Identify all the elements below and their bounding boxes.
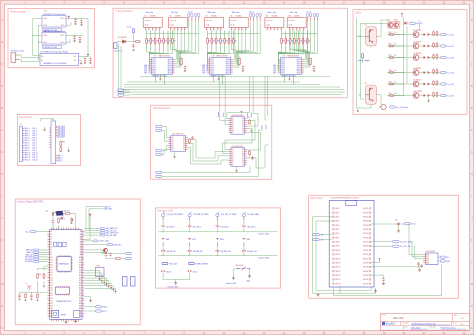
svg-text:GPIO31: GPIO31 <box>363 258 368 260</box>
svg-text:D22: D22 <box>50 288 53 290</box>
svg-text:SEG_5: SEG_5 <box>273 69 278 71</box>
capacitor C6 on 5v rail <box>89 58 92 62</box>
IC U9 MAX7219 display driver <box>144 55 174 78</box>
svg-text:Latch: Latch <box>246 113 249 117</box>
wire horizontal feeds display row <box>147 33 199 35</box>
wire row 3 <box>395 57 413 59</box>
svg-text:Q0: Q0 <box>172 137 174 139</box>
ports mid right <box>126 252 132 254</box>
LED driver row 1 resistor R20 <box>388 34 395 36</box>
chip notch <box>346 200 357 205</box>
LED driver row 5 indicator LEDs <box>424 83 427 86</box>
svg-text:LED_SW_3: LED_SW_3 <box>247 227 255 229</box>
svg-text:Q6: Q6 <box>232 130 234 132</box>
wire resistors to IC1 <box>147 51 173 72</box>
svg-text:Q3: Q3 <box>232 124 234 126</box>
resistor R44 left <box>37 273 39 279</box>
svg-text:220: 220 <box>173 41 176 43</box>
svg-text:DIG4: DIG4 <box>152 67 156 69</box>
svg-text:D26: D26 <box>50 298 53 300</box>
svg-text:Q6 2N2222: Q6 2N2222 <box>413 41 421 43</box>
svg-text:Switch1_GND: Switch1_GND <box>259 233 270 236</box>
svg-text:LED_SW_1: LED_SW_1 <box>193 227 201 229</box>
LED driver row 4 resistor R23 <box>388 72 395 74</box>
svg-text:D2: D2 <box>50 236 52 238</box>
svg-text:GPIO17: GPIO17 <box>335 279 340 281</box>
ports right middle <box>393 240 400 242</box>
wires top feeds to U14 <box>220 109 229 121</box>
svg-text:SEG_7: SEG_7 <box>202 73 207 75</box>
LED driver row 6 indicator LEDs <box>424 94 427 97</box>
svg-text:SEG1: SEG1 <box>297 61 301 63</box>
svg-text:Q5: Q5 <box>232 160 234 162</box>
switch body row1 cell1 <box>162 217 164 220</box>
svg-text:SW_ROW3: SW_ROW3 <box>25 261 33 263</box>
display U10 5011AS 7-segment <box>287 12 306 31</box>
svg-text:G: G <box>1 151 3 154</box>
svg-text:GPIO27: GPIO27 <box>363 242 368 244</box>
svg-text:GPIO25: GPIO25 <box>363 233 368 235</box>
wire Q1 feeds <box>361 22 388 24</box>
ground row3 <box>174 281 177 284</box>
svg-text:GPIO26: GPIO26 <box>363 237 368 239</box>
wire transistor collectors bus <box>419 20 421 30</box>
svg-text:220: 220 <box>152 41 155 43</box>
svg-text:C: C <box>2 63 4 66</box>
connector input 2pin <box>114 43 117 49</box>
wire IC right bundles to displays <box>171 30 185 67</box>
svg-text:1k: 1k <box>395 55 397 57</box>
svg-text:C30: C30 <box>395 220 398 222</box>
svg-text:R20: R20 <box>389 32 392 34</box>
fuse F1 <box>134 41 140 43</box>
ground under U10 <box>218 74 220 77</box>
section box LED boost drivers <box>353 10 467 115</box>
power flag reg1 <box>68 16 70 18</box>
svg-text:GPIO5: GPIO5 <box>335 229 339 231</box>
svg-text:GPIO28: GPIO28 <box>363 246 368 248</box>
wire descenders to shift register box <box>220 76 267 109</box>
wire power flag to module <box>84 217 90 239</box>
wire row 6 <box>395 95 413 97</box>
svg-text:M: M <box>471 283 473 286</box>
ground right of module <box>84 297 90 300</box>
encoder ground wires <box>234 269 240 277</box>
svg-text:SW8: SW8 <box>220 239 224 241</box>
svg-text:D5: D5 <box>183 147 185 149</box>
svg-text:Vcc_LR1: Vcc_LR1 <box>447 34 454 36</box>
svg-text:SEG_6: SEG_6 <box>273 71 278 73</box>
LED driver row 3 indicator LEDs <box>424 56 427 59</box>
wire row 2 <box>395 45 413 47</box>
port Vcc_5V_blank bottom <box>390 106 396 108</box>
svg-text:GPIO29: GPIO29 <box>363 250 368 252</box>
wires above module <box>52 215 54 219</box>
svg-text:DIG4: DIG4 <box>210 67 214 69</box>
svg-text:D25: D25 <box>50 295 53 297</box>
svg-text:a b c d e: a b c d e <box>230 20 236 22</box>
wire reg2 output <box>66 35 83 37</box>
wire row1 cell1 <box>162 220 164 232</box>
svg-text:DIG_1: DIG_1 <box>32 130 37 132</box>
svg-text:DIG_5: DIG_5 <box>32 140 37 142</box>
capacitor bottom-left C22 <box>30 294 33 298</box>
svg-text:GPIO32: GPIO32 <box>363 262 368 264</box>
svg-text:TOG_HR_UP 10HOUR: TOG_HR_UP 10HOUR <box>166 214 183 216</box>
ground under U9 <box>160 74 162 77</box>
LED driver row 1 resistor vertical <box>433 31 435 37</box>
LED driver row 1 indicator LEDs <box>424 33 427 36</box>
LED driver row 2 resistor vertical <box>433 42 435 48</box>
resistor network cluster 2 (segment resistors) <box>207 37 237 44</box>
svg-text:32K: 32K <box>446 257 449 259</box>
svg-text:MAX7219CNG: MAX7219CNG <box>159 55 171 58</box>
wire bottom row feeds <box>370 104 372 108</box>
svg-text:R40 1k: R40 1k <box>60 219 65 221</box>
svg-text:Sw_In: Sw_In <box>25 231 30 233</box>
svg-text:10Min_Disp: 10Min_Disp <box>207 12 216 14</box>
svg-text:D3: D3 <box>242 124 244 126</box>
svg-text:D23: D23 <box>50 290 53 292</box>
display U6 5011AS 7-segment <box>168 12 187 31</box>
svg-text:SEG4: SEG4 <box>168 67 172 69</box>
svg-text:220: 220 <box>169 41 172 43</box>
capacitor right of U9 <box>184 66 187 70</box>
wire ground bus row2 <box>159 255 278 257</box>
svg-text:Q6: Q6 <box>232 162 234 164</box>
svg-text:220: 220 <box>217 41 220 43</box>
wires resistors to display pair 2 <box>208 30 234 50</box>
svg-text:DIG_3: DIG_3 <box>32 135 37 137</box>
ground below module 2 <box>75 318 77 321</box>
svg-text:R25: R25 <box>389 93 392 95</box>
svg-text:D3: D3 <box>242 156 244 158</box>
switch body row2 cell1 <box>162 243 164 246</box>
svg-text:GPIO16: GPIO16 <box>335 275 340 277</box>
svg-text:GPIO11: GPIO11 <box>335 254 340 256</box>
svg-text:N: N <box>471 305 473 308</box>
label LM2596 5V 3A <box>43 28 62 31</box>
svg-text:U9: U9 <box>266 15 268 17</box>
svg-text:SEG_0: SEG_0 <box>25 128 30 130</box>
svg-text:220: 220 <box>226 41 229 43</box>
ports left of chip <box>312 234 319 236</box>
svg-text:SEG7: SEG7 <box>226 73 230 75</box>
svg-text:IN+: IN+ <box>41 56 44 58</box>
label LM2596 5V 3A second <box>43 45 62 48</box>
svg-text:DIG4: DIG4 <box>281 67 285 69</box>
wires U13 outputs to U15 <box>188 139 229 158</box>
svg-text:SEG4: SEG4 <box>297 67 301 69</box>
svg-text:C: C <box>471 63 473 66</box>
svg-text:5: 5 <box>221 29 222 31</box>
svg-text:Q0: Q0 <box>232 118 234 120</box>
svg-text:Q4: Q4 <box>232 158 234 160</box>
LED driver row 2 port <box>441 45 447 47</box>
svg-text:D14: D14 <box>50 267 53 269</box>
capacitor top right <box>70 218 73 222</box>
svg-text:SEG4: SEG4 <box>226 67 230 69</box>
svg-text:SEG_8: SEG_8 <box>25 147 30 149</box>
svg-text:SW_HR_DN: SW_HR_DN <box>166 251 176 253</box>
svg-text:D2: D2 <box>183 141 185 143</box>
svg-text:SEG_7: SEG_7 <box>273 73 278 75</box>
svg-text:DIG_10: DIG_10 <box>32 152 37 154</box>
wires resistors to display pair 1 <box>147 30 173 50</box>
LED driver row 6 resistor vertical <box>433 92 435 98</box>
resistor bottom-left R42 <box>25 293 27 299</box>
svg-text:D21: D21 <box>50 285 53 287</box>
svg-text:Vcc_LR6: Vcc_LR6 <box>447 95 454 97</box>
svg-text:DIG_7: DIG_7 <box>32 145 37 147</box>
transistor module Q2 big driver <box>359 83 377 104</box>
svg-text:LED_9: LED_9 <box>193 272 198 274</box>
svg-text:SEG_10: SEG_10 <box>25 152 31 154</box>
chip CH340 DIP inside module <box>56 286 70 296</box>
svg-text:SEG1: SEG1 <box>226 61 230 63</box>
LED driver row 4 resistor vertical <box>433 69 435 75</box>
svg-text:SEG_5: SEG_5 <box>25 140 30 142</box>
svg-text:220: 220 <box>287 41 290 43</box>
svg-text:SEG5: SEG5 <box>226 69 230 71</box>
wire row1 cell4 <box>243 220 245 232</box>
svg-text:R24: R24 <box>389 81 392 83</box>
svg-text:Vcc_5V: Vcc_5V <box>416 23 423 25</box>
svg-text:Q6: Q6 <box>172 149 174 151</box>
wire left bus vertical <box>357 18 372 108</box>
svg-text:GPIO6: GPIO6 <box>335 233 339 235</box>
optocoupler pair Q3 Q4 top <box>387 21 400 28</box>
svg-text:1k: 1k <box>395 81 397 83</box>
svg-text:SEG_9: SEG_9 <box>25 150 30 152</box>
svg-text:1Hr_Disp: 1Hr_Disp <box>171 12 178 14</box>
ground below module 1 <box>65 319 67 320</box>
svg-text:SEG_6: SEG_6 <box>202 71 207 73</box>
svg-text:GPIO9: GPIO9 <box>335 246 339 248</box>
frame column numbers bottom <box>23 332 466 335</box>
svg-text:f g dp: f g dp <box>288 25 292 27</box>
wire verticals colon group 3 <box>308 21 318 54</box>
svg-text:Q1: Q1 <box>232 120 234 122</box>
LED driver row 2 transistor Q6 <box>413 43 419 49</box>
svg-text:D30: D30 <box>50 308 53 310</box>
LED driver row 5 port <box>441 83 447 85</box>
LED driver row 5 transistor Q9 <box>413 81 419 87</box>
svg-text:ENC_0: ENC_0 <box>58 155 63 157</box>
LED driver row 5 resistor vertical <box>433 80 435 86</box>
svg-text:GPIO8: GPIO8 <box>335 242 339 244</box>
svg-text:SEG0: SEG0 <box>226 59 230 61</box>
LED driver row 3 resistor R22 <box>388 57 395 59</box>
svg-text:Clk2: Clk2 <box>261 126 263 129</box>
wire bottom-left parts rail <box>20 291 48 293</box>
svg-text:SEG_13: SEG_13 <box>25 160 31 162</box>
svg-text:R30: R30 <box>62 142 65 144</box>
svg-text:DIG_8: DIG_8 <box>32 147 37 149</box>
section box Arduino Mega <box>15 199 140 325</box>
svg-text:SEG_7: SEG_7 <box>144 73 149 75</box>
svg-text:ALBA3V DC-DC MODULE: ALBA3V DC-DC MODULE <box>44 62 67 65</box>
LED driver row 4 port <box>441 71 447 73</box>
display U5 5011AS 7-segment <box>143 12 162 31</box>
IC U11 MAX7219 display driver <box>273 55 303 78</box>
svg-text:VIN+: VIN+ <box>44 18 48 20</box>
resistor network cluster 3 (segment resistors) <box>281 37 311 44</box>
power flag module <box>87 54 89 56</box>
svg-text:D7: D7 <box>242 132 244 134</box>
svg-text:SEG1: SEG1 <box>168 61 172 63</box>
resistor right top R41 <box>64 213 71 215</box>
svg-text:DIG0: DIG0 <box>281 59 285 61</box>
LED row3 cell1 <box>161 271 163 273</box>
svg-text:D18: D18 <box>50 277 53 279</box>
wire mid bus verticals <box>403 18 405 96</box>
display U8 5011AS 7-segment <box>229 12 248 31</box>
port Vcc_LED top <box>410 22 416 24</box>
top right parts capacitor <box>397 222 400 226</box>
svg-text:SEG_3: SEG_3 <box>273 65 278 67</box>
svg-text:SEG_5: SEG_5 <box>202 69 207 71</box>
ground under U11 <box>289 74 291 77</box>
svg-text:GPIO4: GPIO4 <box>335 225 339 227</box>
svg-text:GPIO24: GPIO24 <box>363 229 368 231</box>
svg-text:GPIO35: GPIO35 <box>363 275 368 277</box>
svg-text:D0: D0 <box>242 118 244 120</box>
svg-text:a b c d e: a b c d e <box>144 20 150 22</box>
svg-text:Q5: Q5 <box>172 147 174 149</box>
svg-text:1Sec_Disp: 1Sec_Disp <box>290 12 298 14</box>
svg-text:ENC_1: ENC_1 <box>58 157 63 159</box>
LED driver row 6 port <box>441 94 447 96</box>
svg-text:OUT-: OUT- <box>60 25 64 27</box>
wire resistors to IC2 <box>207 51 233 72</box>
title block table <box>381 314 470 331</box>
svg-text:D11: D11 <box>50 259 53 261</box>
ground below chip right <box>375 288 377 289</box>
connector blue right 1 <box>123 277 128 287</box>
svg-text:220: 220 <box>234 41 237 43</box>
svg-text:D9: D9 <box>50 254 52 256</box>
svg-text:I2C_RTC_SCL: I2C_RTC_SCL <box>400 246 411 248</box>
svg-text:DIG_12: DIG_12 <box>32 157 37 159</box>
svg-text:SEG3: SEG3 <box>168 65 172 67</box>
capacitor right of U10 <box>242 66 245 70</box>
pushbutton S2 row2 <box>188 237 191 239</box>
svg-text:DIG3: DIG3 <box>152 65 156 67</box>
wire right bottom loop 2 <box>371 266 421 267</box>
svg-text:SEG_6: SEG_6 <box>25 143 30 145</box>
svg-text:D8: D8 <box>50 252 52 254</box>
pushbutton S4 row2 <box>242 237 245 239</box>
svg-text:SEG_4: SEG_4 <box>273 67 278 69</box>
svg-text:DIG5: DIG5 <box>281 69 285 71</box>
wire row 5 <box>395 83 413 85</box>
svg-text:M: M <box>1 283 3 286</box>
svg-text:Q10 2N2222: Q10 2N2222 <box>413 91 422 93</box>
ports right of RTC <box>440 256 445 258</box>
svg-text:1k: 1k <box>395 93 397 95</box>
net port cluster right of module <box>84 227 119 237</box>
svg-text:I2C_RTC_SDA: I2C_RTC_SDA <box>400 240 412 243</box>
svg-text:TOG_SEC_UP 10SEC: TOG_SEC_UP 10SEC <box>221 214 238 216</box>
wires module right to LED array <box>84 270 116 290</box>
wire row2 cell4 <box>243 246 245 256</box>
svg-text:1k: 1k <box>395 32 397 34</box>
pushbutton S1 row2 <box>162 237 165 239</box>
svg-text:SEG_CLK_OUT: SEG_CLK_OUT <box>106 230 117 232</box>
LED row2 cell4 <box>242 250 244 252</box>
capacitor C1 <box>74 19 77 23</box>
reset button <box>52 310 59 317</box>
svg-text:Q1: Q1 <box>172 139 174 141</box>
colon LEDs group L2 <box>249 12 261 21</box>
svg-text:P1: P1 <box>20 124 22 126</box>
svg-text:GPIO14: GPIO14 <box>335 267 340 269</box>
svg-text:GPIO12: GPIO12 <box>335 258 340 260</box>
svg-text:R21: R21 <box>389 43 392 45</box>
ground under U15 <box>236 166 238 169</box>
svg-text:5V Power Input: 5V Power Input <box>11 50 24 53</box>
svg-text:SEG7: SEG7 <box>168 73 172 75</box>
svg-text:D7: D7 <box>50 249 52 251</box>
svg-text:U20: U20 <box>387 19 390 21</box>
frame column numbers top <box>23 1 466 4</box>
svg-text:USB_GND: USB_GND <box>104 209 113 211</box>
wire input rail <box>117 41 123 43</box>
resistor right horizontal <box>115 258 122 260</box>
svg-text:O: O <box>471 327 473 330</box>
connector dark top-left of module <box>56 211 64 216</box>
svg-text:Changers LED: Changers LED <box>157 209 173 212</box>
slide switch row3 cell2 <box>188 262 194 264</box>
svg-text:D9 1N5822: D9 1N5822 <box>118 37 127 39</box>
ground encoder 1 <box>232 277 235 280</box>
svg-text:SEG_5: SEG_5 <box>144 69 149 71</box>
svg-text:a b c d e: a b c d e <box>170 20 176 22</box>
svg-text:G: G <box>471 151 473 154</box>
svg-text:U10: U10 <box>288 15 291 17</box>
wire row1 cell2 <box>189 220 191 232</box>
svg-text:Q7 2N2222: Q7 2N2222 <box>413 53 421 55</box>
wire row3 cell2 <box>189 273 191 280</box>
toggle switch SW5 row1 <box>242 214 245 217</box>
svg-text:SEG_11: SEG_11 <box>25 155 31 157</box>
svg-text:Vcc_LR2: Vcc_LR2 <box>447 46 454 48</box>
svg-text:MAX7219CNG: MAX7219CNG <box>288 55 300 58</box>
svg-text:Vcc_LR4: Vcc_LR4 <box>447 72 454 74</box>
svg-text:a b c d e: a b c d e <box>206 20 212 22</box>
svg-text:D24: D24 <box>50 293 53 295</box>
svg-text:D16: D16 <box>50 272 53 274</box>
svg-text:MAX7219CNG: MAX7219CNG <box>217 55 229 58</box>
svg-text:GPIO0: GPIO0 <box>335 208 339 210</box>
switch body row1 cell3 <box>216 217 218 220</box>
svg-text:SEG5: SEG5 <box>168 69 172 71</box>
connector blue right 2 <box>131 277 136 287</box>
svg-text:5V_In: 5V_In <box>411 223 415 225</box>
svg-text:DIG3: DIG3 <box>281 65 285 67</box>
ground under U13 <box>174 152 176 156</box>
svg-text:DataIn: DataIn <box>217 112 220 117</box>
svg-text:DIG_9: DIG_9 <box>32 150 37 152</box>
svg-text:a b c d e: a b c d e <box>266 20 272 22</box>
wire row 1 <box>395 34 413 36</box>
svg-text:U13 74HC595: U13 74HC595 <box>172 133 183 135</box>
capacitor at input <box>132 44 135 48</box>
svg-text:SEG0: SEG0 <box>297 59 301 61</box>
frame row letters left <box>1 19 3 330</box>
svg-text:D5: D5 <box>242 128 244 130</box>
